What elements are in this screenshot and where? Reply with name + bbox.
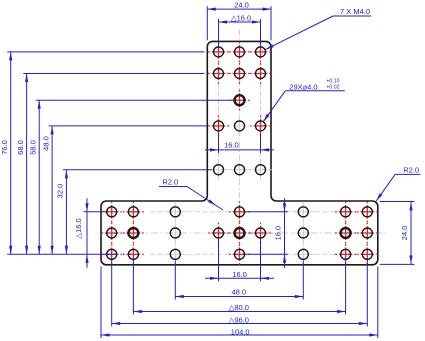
centerline horizontal row B1 (150, 211, 335, 213)
svg-text:7 X M4.0: 7 X M4.0 (340, 7, 370, 16)
extension line row B1 left (84, 211, 106, 213)
tapped hole M24 (M4.0) at (367,233) (361, 232, 375, 234)
centerline vertical X5 column (239, 30, 241, 263)
plain hole P7 (∅4.0) at (175,254) (169, 253, 183, 255)
extension line row R1 left (7, 51, 204, 53)
extension line row R4 left (49, 125, 207, 127)
extension line X2 bottom (132, 261, 134, 315)
tapped hole M19 (M4.0) at (260,233) (254, 232, 268, 234)
svg-text:16.0: 16.0 (232, 270, 247, 279)
svg-text:24.0: 24.0 (234, 0, 249, 9)
extension lines for dim 16.0 top (218, 19, 220, 46)
svg-text:R2.0: R2.0 (403, 166, 419, 175)
svg-text:△16.0: △16.0 (231, 13, 251, 22)
tapped hole M6 (M4.0) at (260,74) (254, 73, 268, 75)
tapped hole M10 (M4.0) at (112,212) (105, 211, 119, 213)
tapped hole M15 (M4.0) at (133,254) (127, 253, 141, 255)
tapped hole M18 (M4.0) at (240,233) (233, 232, 247, 234)
dimension 104.0 bottom (101, 334, 378, 336)
svg-text:△96.0: △96.0 (229, 316, 249, 325)
leader 7 X M4.0 (333, 15, 371, 17)
svg-text:76.0: 76.0 (0, 140, 9, 155)
extension line part left edge bottom (100, 267, 102, 339)
extension line part right edge bottom (377, 267, 379, 339)
tapped hole M21 (M4.0) at (346,212) (339, 211, 353, 213)
svg-text:16.0: 16.0 (224, 141, 239, 150)
dimension △16.0 top (hole spacing) (219, 21, 261, 23)
svg-text:△16.0: △16.0 (74, 218, 83, 238)
tapped hole M8 (M4.0) at (218,126) (212, 125, 226, 127)
dimension 16.0 inner column (205, 149, 274, 151)
leader 29X∅4.0 +0.10/+0.02 (285, 90, 345, 92)
extension line X7 bottom (302, 261, 304, 300)
extension line row R2 left (23, 73, 204, 75)
tapped hole M12 (M4.0) at (112,233) (105, 232, 119, 234)
centerline row B2 overshoot right (379, 232, 386, 234)
dimension 68.0 left (26, 74, 28, 255)
extension line X8 bottom (345, 261, 347, 315)
dimension △16.0 left (86, 198, 88, 267)
leader R2.0 top right corner (395, 173, 420, 175)
dimension △96.0 bottom (112, 323, 368, 325)
svg-text:△80.0: △80.0 (229, 303, 249, 312)
plain hole P2 (∅4.0) at (218,170) (212, 169, 226, 171)
extension line row B3 right (246, 253, 288, 255)
tapped hole M3 (M4.0) at (260,52) (254, 51, 268, 53)
centerline horizontal row B3 (150, 253, 335, 255)
tapped hole M14 (M4.0) at (112,254) (105, 253, 119, 255)
extension line X6 bottom (260, 240, 262, 282)
svg-text:104.0: 104.0 (231, 327, 250, 336)
tapped hole M2 (M4.0) at (240,52) (233, 51, 247, 53)
baseline extension row B3 left (7, 253, 117, 255)
plain hole P4 (∅4.0) at (260,170) (254, 169, 268, 171)
extension line bar top edge right (380, 201, 415, 203)
tapped hole M9 (M4.0) at (260,126) (254, 125, 268, 127)
svg-text:68.0: 68.0 (16, 140, 25, 155)
plain hole P8 (∅4.0) at (303,212) (297, 211, 311, 213)
svg-text:48.0: 48.0 (41, 136, 50, 151)
svg-text:16.0: 16.0 (274, 226, 283, 241)
dimension 24.0 top (column width) (207, 8, 271, 10)
dimension 58.0 left (38, 100, 40, 254)
centerline vertical X7 (302, 202, 304, 263)
centerline horizontal row B2 (107, 232, 372, 234)
svg-text:58.0: 58.0 (28, 140, 37, 155)
leader R2.0 junction fillet (159, 186, 187, 188)
dimension 32.0 left (65, 170, 67, 255)
dimension 76.0 left (10, 52, 12, 254)
extension line X4 row R4 (218, 133, 220, 153)
tapped hole M7 (M4.0) at (240,100) (233, 99, 247, 101)
centerline horizontal row R5 (208, 169, 272, 171)
tapped hole M13 (M4.0) at (133,233) (127, 232, 141, 234)
extension lines for dim 24.0 top (206, 6, 208, 40)
extension line X4 bottom (218, 240, 220, 282)
plain hole P9 (∅4.0) at (303,233) (297, 232, 311, 234)
svg-text:24.0: 24.0 (400, 226, 409, 241)
extension line X3 bottom (174, 261, 176, 300)
tapped hole M5 (M4.0) at (240,74) (233, 73, 247, 75)
tapped hole M22 (M4.0) at (367,212) (361, 211, 375, 213)
dimension 48.0 bottom (175, 296, 303, 298)
dimension 48.0 left (51, 126, 53, 254)
tapped hole M26 (M4.0) at (367,254) (361, 253, 375, 255)
tapped hole M20 (M4.0) at (240,254) (233, 253, 247, 255)
tapped hole M4 (M4.0) at (218,74) (212, 73, 226, 75)
tapped hole M11 (M4.0) at (133,212) (127, 211, 141, 213)
svg-text:29X⌀4.0: 29X⌀4.0 (289, 82, 317, 91)
extension line row R5 left (63, 169, 212, 171)
extension line X1 bottom (111, 261, 113, 327)
tapped hole M23 (M4.0) at (346,233) (339, 232, 353, 234)
plain hole P10 (∅4.0) at (303,254) (297, 253, 311, 255)
tapped hole M25 (M4.0) at (346,254) (339, 253, 353, 255)
dimension 16.0 right (bar hole rows) (284, 198, 286, 267)
tapped hole M16 (M4.0) at (240,212) (233, 211, 247, 213)
tapped hole M1 (M4.0) at (218,52) (212, 51, 226, 53)
dimension 24.0 right (bar height) (410, 202, 412, 264)
plain hole P3 (∅4.0) at (240,170) (233, 169, 247, 171)
extension line X9 bottom (366, 261, 368, 327)
part outline: T-shaped plate (101, 41, 378, 264)
extension line row B1 right (246, 211, 288, 213)
centerline vertical X6 column (260, 84, 262, 181)
extension line row R3 left (36, 99, 234, 101)
svg-text:32.0: 32.0 (56, 184, 65, 199)
centerline vertical X4 column (218, 84, 220, 181)
plain hole P1 (∅4.0) at (240,126) (233, 125, 247, 127)
dimension △80.0 bottom (133, 311, 345, 313)
plain hole P5 (∅4.0) at (175,212) (169, 211, 183, 213)
centerline vertical X3 (174, 202, 176, 263)
extension line bar bottom edge right (380, 263, 415, 265)
dimension 16.0 bottom (205, 277, 274, 279)
svg-text:+0.02: +0.02 (326, 84, 339, 90)
extension line X6 row R4 (260, 133, 262, 153)
svg-text:48.0: 48.0 (231, 287, 246, 296)
tapped hole M17 (M4.0) at (218,233) (212, 232, 226, 234)
svg-text:R2.0: R2.0 (162, 178, 178, 187)
plain hole P6 (∅4.0) at (175,233) (169, 232, 183, 234)
